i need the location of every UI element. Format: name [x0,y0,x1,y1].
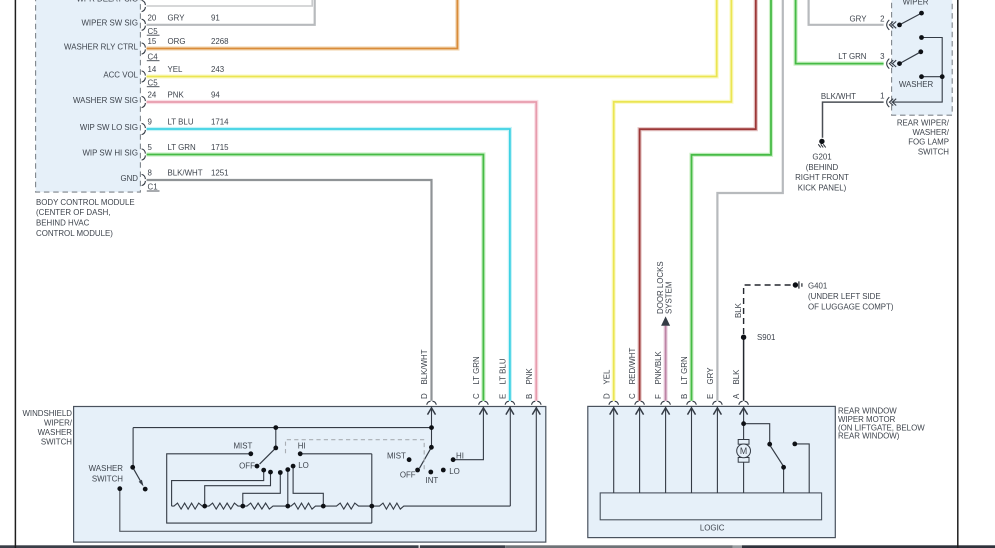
svg-text:G401: G401 [808,282,827,291]
svg-text:GRY: GRY [850,14,868,23]
svg-text:WIPER/: WIPER/ [44,419,73,428]
svg-text:20: 20 [148,13,157,22]
svg-text:9: 9 [148,118,153,127]
svg-text:LO: LO [298,461,309,470]
svg-text:C5: C5 [148,78,159,87]
svg-text:15: 15 [148,37,157,46]
svg-text:REAR WINDOW): REAR WINDOW) [838,432,900,441]
svg-text:5: 5 [148,143,153,152]
svg-text:B: B [680,394,689,399]
svg-text:PNK/BLK: PNK/BLK [654,350,663,384]
svg-text:F: F [654,394,663,399]
svg-text:94: 94 [211,91,220,100]
svg-text:MIST: MIST [387,451,406,460]
svg-text:(UNDER LEFT SIDE: (UNDER LEFT SIDE [808,292,881,301]
svg-text:HI: HI [456,451,464,460]
svg-text:D: D [602,393,611,399]
svg-text:LOGIC: LOGIC [700,523,725,532]
svg-text:(BEHIND: (BEHIND [806,163,839,172]
svg-text:LT GRN: LT GRN [680,356,689,385]
svg-text:91: 91 [211,13,220,22]
svg-text:WIP SW LO SIG: WIP SW LO SIG [80,123,138,132]
svg-text:KICK PANEL): KICK PANEL) [798,184,847,193]
svg-text:C5: C5 [148,27,159,36]
svg-text:SWITCH: SWITCH [92,474,123,483]
svg-text:2: 2 [880,14,884,23]
svg-text:CONTROL MODULE): CONTROL MODULE) [36,229,113,238]
svg-text:WPR DELAY SIG: WPR DELAY SIG [76,0,138,4]
svg-text:ACC VOL: ACC VOL [103,70,138,79]
svg-text:ORG: ORG [168,37,186,46]
svg-text:1: 1 [880,91,884,100]
svg-text:8: 8 [148,169,153,178]
svg-text:C4: C4 [148,52,159,61]
svg-text:WASHER: WASHER [899,80,934,89]
svg-text:C: C [472,393,481,399]
svg-text:E: E [706,394,715,399]
svg-text:14: 14 [148,65,157,74]
svg-text:YEL: YEL [602,369,611,385]
svg-text:WASHER/: WASHER/ [912,128,949,137]
svg-text:GRY: GRY [168,13,186,22]
svg-text:M: M [740,446,747,456]
svg-text:LT GRN: LT GRN [838,52,867,61]
svg-text:S901: S901 [757,333,775,342]
svg-text:WASHER: WASHER [38,428,73,437]
svg-text:SYSTEM: SYSTEM [665,282,674,314]
svg-text:PNK: PNK [525,368,534,385]
svg-text:WINDSHIELD: WINDSHIELD [22,409,72,418]
svg-text:RIGHT FRONT: RIGHT FRONT [795,173,849,182]
svg-text:D: D [420,393,429,399]
svg-text:2268: 2268 [211,37,229,46]
svg-text:SWITCH: SWITCH [41,437,72,446]
svg-text:PNK: PNK [168,91,185,100]
svg-text:SWITCH: SWITCH [918,147,949,156]
svg-text:YEL: YEL [168,65,184,74]
svg-text:WIPER: WIPER [903,0,929,6]
svg-text:LO: LO [449,467,460,476]
svg-text:HI: HI [298,441,306,450]
svg-text:243: 243 [211,65,225,74]
svg-text:LT BLU: LT BLU [168,118,194,127]
svg-text:GRY: GRY [706,367,715,385]
svg-text:(CENTER OF DASH,: (CENTER OF DASH, [36,208,111,217]
svg-text:WASHER SW SIG: WASHER SW SIG [73,96,138,105]
svg-text:BLK/WHT: BLK/WHT [821,92,856,101]
svg-text:BEHIND HVAC: BEHIND HVAC [36,219,90,228]
svg-text:OF LUGGAGE COMPT): OF LUGGAGE COMPT) [808,302,894,311]
svg-text:WIPER SW SIG: WIPER SW SIG [81,19,138,28]
svg-text:C1: C1 [148,183,158,192]
svg-text:BLK: BLK [734,302,743,318]
svg-text:WASHER RLY CTRL: WASHER RLY CTRL [64,42,139,51]
svg-text:OFF: OFF [400,470,416,479]
svg-text:FOG LAMP: FOG LAMP [908,138,949,147]
svg-text:B: B [525,394,534,399]
svg-text:LT BLU: LT BLU [499,358,508,384]
svg-text:G201: G201 [812,152,831,161]
svg-text:INT: INT [426,476,439,485]
svg-text:BLK/WHT: BLK/WHT [420,349,429,384]
svg-text:WASHER: WASHER [89,464,124,473]
svg-text:MIST: MIST [233,441,252,450]
svg-text:24: 24 [148,91,157,100]
svg-text:LT GRN: LT GRN [168,143,197,152]
svg-text:LT GRN: LT GRN [472,356,481,385]
svg-text:REAR WIPER/: REAR WIPER/ [897,119,950,128]
svg-text:1714: 1714 [211,118,229,127]
svg-text:BLK: BLK [732,369,741,385]
svg-text:WIP SW HI SIG: WIP SW HI SIG [82,148,138,157]
svg-text:BLK/WHT: BLK/WHT [168,169,203,178]
svg-text:3: 3 [880,52,885,61]
svg-text:BODY CONTROL MODULE: BODY CONTROL MODULE [36,198,135,207]
svg-text:OFF: OFF [239,462,255,471]
svg-text:RED/WHT: RED/WHT [628,348,637,385]
svg-text:1251: 1251 [211,169,229,178]
svg-text:GND: GND [120,174,138,183]
svg-text:A: A [732,393,741,399]
svg-text:E: E [499,394,508,399]
svg-text:C: C [628,393,637,399]
svg-text:1715: 1715 [211,143,229,152]
